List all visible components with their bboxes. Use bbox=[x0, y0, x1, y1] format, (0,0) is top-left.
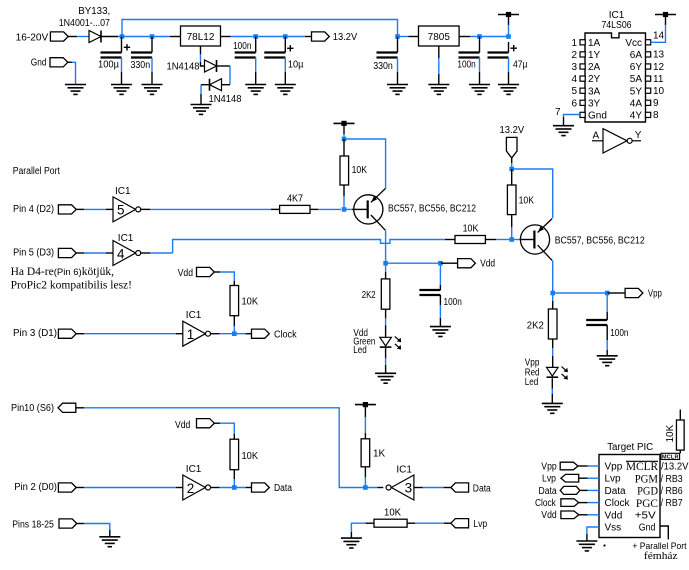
node Q2 base bbox=[509, 237, 514, 242]
svg-text:74LS06: 74LS06 bbox=[601, 20, 631, 31]
output terminal Data bbox=[252, 483, 293, 494]
inverter U1d gate4 bbox=[113, 233, 141, 265]
label parallel port case bbox=[632, 541, 686, 562]
resistor R4 10K pullup-Q2 bbox=[507, 169, 534, 238]
svg-text:BY133,: BY133, bbox=[78, 6, 110, 17]
svg-text:Parallel Port: Parallel Port bbox=[13, 166, 60, 177]
svg-text:7: 7 bbox=[555, 107, 561, 118]
label / RB6 bbox=[661, 486, 683, 497]
IC pins squares bbox=[580, 40, 651, 118]
node 100n-b bbox=[477, 34, 482, 39]
svg-text:4Y: 4Y bbox=[630, 111, 643, 122]
svg-text:Pin10 (S6): Pin10 (S6) bbox=[11, 403, 54, 414]
wire Q1 emitter bbox=[344, 139, 386, 189]
wire gate5 out bbox=[141, 208, 280, 210]
label Parallel Port bbox=[13, 166, 60, 177]
node Q2 rail bbox=[509, 167, 514, 172]
input terminal Data-pic bbox=[451, 483, 491, 494]
wire Q2 collector down bbox=[552, 260, 554, 293]
node gate3 in bbox=[363, 485, 368, 490]
svg-text:ProPic2 kompatibilis lesz!: ProPic2 kompatibilis lesz! bbox=[11, 280, 132, 292]
node Vpp rail-a bbox=[550, 291, 555, 296]
PIC pin Gnd bbox=[639, 523, 656, 534]
node 100n-a bbox=[253, 34, 258, 39]
ground C9 bbox=[430, 327, 451, 337]
terminal Lvp-t bbox=[542, 474, 599, 485]
power tap bar Vcc bbox=[655, 12, 676, 17]
terminal Vdd-t bbox=[541, 510, 599, 521]
svg-text:Data: Data bbox=[539, 486, 558, 497]
node 330n bbox=[150, 34, 155, 39]
label Q2 type bbox=[555, 236, 645, 247]
svg-text:10K: 10K bbox=[519, 196, 535, 207]
svg-text:Vdd: Vdd bbox=[480, 259, 495, 270]
resistor R7 10K bbox=[230, 286, 258, 333]
svg-text:330n: 330n bbox=[373, 61, 393, 72]
wire base Q1 bbox=[344, 208, 368, 210]
capacitor C7 47u bbox=[488, 42, 528, 85]
svg-text:78L12: 78L12 bbox=[187, 32, 215, 43]
svg-text:10: 10 bbox=[653, 86, 665, 97]
wire gate4 out bbox=[141, 252, 173, 254]
resistor R1 4K7 bbox=[280, 194, 310, 214]
ground pin7 bbox=[553, 126, 574, 136]
transistor Q1 BC557 bbox=[354, 189, 386, 231]
svg-text:Gnd: Gnd bbox=[31, 58, 47, 69]
note line1 bbox=[11, 266, 114, 278]
diode D3 1N4148 bbox=[201, 79, 242, 105]
ground Vss bbox=[576, 541, 597, 551]
svg-text:10K: 10K bbox=[384, 508, 401, 519]
svg-text:Vpp: Vpp bbox=[541, 461, 557, 472]
svg-text:fémház: fémház bbox=[644, 550, 678, 562]
PIC pin PGM bbox=[635, 471, 659, 485]
wire pin5 to gate4 bbox=[84, 252, 113, 254]
transistor Q2 BC557 bbox=[520, 219, 552, 261]
IC pin numbers left 1-7 bbox=[555, 38, 578, 118]
svg-text:6Y: 6Y bbox=[630, 62, 643, 73]
capacitor C3 100n bbox=[233, 37, 256, 85]
svg-text:Gnd: Gnd bbox=[588, 111, 607, 122]
svg-text:14: 14 bbox=[653, 30, 665, 41]
svg-text:Pin 4 (D2): Pin 4 (D2) bbox=[13, 204, 54, 215]
svg-text:2K2: 2K2 bbox=[362, 290, 376, 301]
wire 7805 out bbox=[459, 36, 508, 38]
ground green led bbox=[375, 373, 396, 383]
IC U4 Target PIC body bbox=[599, 455, 660, 538]
input terminal Pin 2 (D0) bbox=[14, 482, 84, 493]
wire led4 to gnd bbox=[385, 348, 387, 373]
legend inverter A-Y bbox=[592, 129, 642, 153]
svg-text:IC1: IC1 bbox=[396, 465, 412, 476]
wire diode loop bbox=[229, 66, 231, 85]
ground C1 bbox=[111, 85, 132, 95]
svg-text:4A: 4A bbox=[630, 98, 643, 109]
diode D2 1N4148 bbox=[167, 60, 231, 73]
node 47u bbox=[506, 34, 511, 39]
svg-text:100n: 100n bbox=[457, 60, 475, 71]
svg-text:Clock: Clock bbox=[605, 498, 631, 509]
ground C5 bbox=[387, 85, 408, 95]
svg-text:9: 9 bbox=[653, 98, 659, 109]
wire input rail bbox=[118, 36, 170, 38]
svg-text:Pins 18-25: Pins 18-25 bbox=[12, 519, 54, 530]
resistor R2 10K pullup-Q1 bbox=[340, 139, 367, 207]
svg-text:Lvp: Lvp bbox=[473, 519, 487, 530]
IC pin labels bbox=[588, 38, 642, 122]
power tap bar 5V bbox=[498, 12, 519, 17]
wire gate4 to R3 with jog bbox=[173, 240, 445, 254]
svg-text:8: 8 bbox=[653, 110, 659, 121]
wire 78L12 gnd bbox=[201, 46, 205, 66]
wire 78L12 out bbox=[221, 36, 312, 38]
regulator U2 78L12 bbox=[170, 26, 221, 46]
wire Vss gnd bbox=[587, 527, 599, 541]
ground 7805 bbox=[428, 85, 449, 95]
svg-text:Vcc: Vcc bbox=[625, 38, 642, 49]
wire pin3 to gate1 bbox=[84, 333, 183, 335]
terminal Vpp-t bbox=[541, 461, 599, 472]
node 330n-b bbox=[395, 34, 400, 39]
wire 5V tap bbox=[508, 15, 510, 37]
svg-text:Ha D4-re(Pin 6)kötjük,: Ha D4-re(Pin 6)kötjük, bbox=[11, 266, 114, 278]
svg-text:Vdd: Vdd bbox=[541, 510, 556, 521]
dot mark bbox=[603, 544, 605, 546]
wire Vdd rail bbox=[386, 262, 441, 264]
label / RB3 bbox=[661, 474, 683, 485]
ground 1N4148 bbox=[191, 105, 212, 115]
svg-text:7805: 7805 bbox=[428, 32, 451, 43]
diode D1 BY133/1N4001 bbox=[59, 6, 118, 43]
svg-text:10µ: 10µ bbox=[288, 60, 304, 71]
wire vdd to R9 bbox=[220, 423, 234, 439]
svg-text:IC1: IC1 bbox=[118, 233, 134, 244]
input terminal 16-20V bbox=[16, 32, 77, 43]
wire lvp gnd bbox=[351, 523, 365, 538]
ground Gnd-tag bbox=[65, 85, 86, 95]
IC U1 74LS06 body bbox=[585, 33, 646, 122]
svg-text:IC1: IC1 bbox=[186, 464, 202, 475]
svg-text:10K: 10K bbox=[463, 224, 479, 235]
resistor R5 2K2 bbox=[527, 293, 557, 367]
svg-text:Clock: Clock bbox=[274, 329, 297, 340]
label / RB7 bbox=[661, 498, 683, 509]
output terminal Clock bbox=[252, 329, 298, 340]
svg-text:6A: 6A bbox=[630, 50, 643, 61]
svg-text:330n: 330n bbox=[131, 60, 151, 71]
input terminal Pins 18-25 bbox=[12, 519, 84, 531]
svg-text:100µ: 100µ bbox=[98, 60, 119, 71]
svg-text:Pin 2 (D0): Pin 2 (D0) bbox=[14, 482, 57, 493]
svg-text:5Y: 5Y bbox=[630, 86, 643, 97]
PIC pin PGC bbox=[636, 496, 658, 510]
input terminal Lvp-pic bbox=[451, 519, 488, 530]
wire Q2 emitter bbox=[512, 169, 553, 218]
svg-text:13.2V: 13.2V bbox=[333, 32, 358, 43]
svg-text:5: 5 bbox=[117, 203, 125, 218]
supply terminal 13.2V-Q2 bbox=[500, 125, 525, 169]
svg-text:PGC: PGC bbox=[636, 496, 658, 510]
IC pin numbers right 14-8 bbox=[653, 30, 665, 121]
svg-text:+5V: +5V bbox=[635, 510, 656, 521]
node clock bbox=[232, 331, 237, 336]
svg-text:Led: Led bbox=[353, 345, 367, 356]
supply terminal Vdd-data bbox=[175, 419, 220, 431]
wire to 7805 bbox=[398, 36, 419, 38]
node Vpp rail-b bbox=[605, 291, 610, 296]
svg-text:3: 3 bbox=[571, 62, 577, 73]
svg-text:4: 4 bbox=[571, 74, 577, 85]
led D4 green Vdd bbox=[353, 328, 401, 356]
svg-text:100n: 100n bbox=[233, 41, 251, 52]
resistor R9 10K bbox=[230, 439, 258, 486]
svg-text:Vdd: Vdd bbox=[178, 268, 193, 279]
svg-text:Lvp: Lvp bbox=[542, 474, 556, 485]
ground C7 bbox=[498, 85, 519, 95]
ground C3 bbox=[245, 85, 266, 95]
svg-text:100n: 100n bbox=[610, 328, 628, 339]
power tap bar 1K bbox=[355, 402, 376, 407]
svg-text:47µ: 47µ bbox=[513, 60, 528, 71]
svg-text:Led: Led bbox=[525, 377, 539, 388]
wire pins1825 gnd bbox=[84, 524, 110, 537]
PIC pin +5V bbox=[635, 510, 656, 521]
power tap bar 13.2V-Q1 bbox=[334, 121, 355, 126]
resistor R11 10K mclr bbox=[665, 410, 684, 454]
label Q1 type bbox=[388, 204, 476, 215]
svg-text:IC1: IC1 bbox=[609, 10, 625, 21]
svg-text:IC1: IC1 bbox=[186, 310, 202, 321]
resistor R10 10K lvp bbox=[366, 508, 451, 528]
net label MCLR box bbox=[661, 453, 680, 460]
svg-text:5: 5 bbox=[571, 86, 577, 97]
inverter U1b gate2 bbox=[183, 464, 211, 500]
terminal Clock-t bbox=[535, 498, 599, 509]
capacitor C6 100n bbox=[457, 37, 479, 85]
ground red led bbox=[542, 403, 563, 413]
svg-text:12: 12 bbox=[653, 62, 665, 73]
svg-text:BC557, BC556, BC212: BC557, BC556, BC212 bbox=[555, 236, 645, 247]
capacitor C1 100u bbox=[98, 37, 130, 85]
svg-text:1N4148: 1N4148 bbox=[167, 62, 200, 73]
ground lvp bbox=[341, 538, 362, 548]
svg-text:2K2: 2K2 bbox=[527, 321, 544, 332]
svg-text:11: 11 bbox=[653, 74, 664, 85]
node A rail-in bbox=[120, 34, 125, 39]
svg-text:16-20V: 16-20V bbox=[16, 32, 49, 43]
node Q1 base bbox=[342, 207, 347, 212]
wire top 13.2V rail bbox=[122, 20, 398, 37]
svg-text:Vpp: Vpp bbox=[605, 462, 623, 473]
wire pin14 Vcc bbox=[651, 17, 666, 43]
svg-text:1K: 1K bbox=[373, 448, 386, 459]
wire Q1 collector down bbox=[385, 230, 387, 261]
svg-text:Data: Data bbox=[605, 486, 627, 497]
wire vdd to R7 bbox=[220, 272, 234, 286]
svg-text:Data: Data bbox=[473, 483, 491, 494]
PIC pin names left bbox=[605, 462, 631, 534]
svg-text:/ RB7: / RB7 bbox=[661, 498, 683, 509]
input terminal Pin 5 (D3) bbox=[13, 247, 84, 258]
wire led to gnd bbox=[551, 378, 553, 403]
wire pin7 Gnd bbox=[564, 115, 581, 126]
note line2 bbox=[11, 280, 132, 292]
wire 7805 gnd bbox=[438, 46, 440, 85]
regulator U3 7805 bbox=[419, 26, 460, 46]
output terminal Vpp bbox=[607, 288, 662, 299]
input terminal Pin10 (S6) bbox=[11, 403, 84, 414]
inverter U1c gate3 bbox=[386, 465, 414, 500]
svg-text:1A: 1A bbox=[588, 38, 601, 49]
svg-text:1: 1 bbox=[571, 38, 577, 49]
output terminal Vdd bbox=[440, 259, 495, 270]
svg-text:IC1: IC1 bbox=[115, 186, 131, 197]
wire pic gnd case bbox=[660, 526, 668, 539]
svg-text:1N4148: 1N4148 bbox=[209, 94, 242, 105]
svg-text:3A: 3A bbox=[588, 86, 601, 97]
IC1 74LS06 title bbox=[601, 10, 631, 31]
wire to gnd D3 bbox=[200, 85, 202, 105]
resistor R8 1K bbox=[361, 439, 385, 488]
svg-text:Gnd: Gnd bbox=[639, 523, 656, 534]
svg-text:Vpp: Vpp bbox=[648, 289, 662, 300]
wire base Q2 bbox=[512, 239, 535, 241]
inverter U1e gate5 bbox=[113, 186, 141, 222]
ground C4 bbox=[275, 85, 296, 95]
svg-text:Lvp: Lvp bbox=[605, 474, 622, 485]
svg-text:Y: Y bbox=[635, 130, 642, 141]
input terminal Pin 4 (D2) bbox=[13, 204, 84, 215]
svg-text:1Y: 1Y bbox=[588, 50, 601, 61]
svg-text:A: A bbox=[593, 131, 600, 142]
ground C8 bbox=[597, 356, 618, 366]
output terminal 13.2V bbox=[312, 32, 358, 43]
svg-text:1N4001-...07: 1N4001-...07 bbox=[59, 18, 111, 29]
capacitor C2 330n bbox=[131, 37, 153, 85]
input terminal Pin 3 (D1) bbox=[13, 328, 84, 339]
node Q1 collector bbox=[383, 261, 388, 266]
svg-text:2: 2 bbox=[571, 50, 577, 61]
resistor R3 10K bbox=[445, 224, 510, 244]
capacitor C9 100n Vdd bbox=[419, 263, 461, 326]
terminal Data-t bbox=[539, 486, 600, 497]
svg-text:/ RB3: / RB3 bbox=[661, 474, 683, 485]
wire gate2 out bbox=[211, 487, 252, 489]
PIC pin MCLR bbox=[626, 459, 658, 473]
svg-text:2: 2 bbox=[187, 481, 195, 496]
ground pins1825 bbox=[99, 537, 120, 547]
wire gate1 out bbox=[211, 333, 252, 335]
wire 4K7 to base bbox=[310, 208, 341, 210]
svg-text:Vss: Vss bbox=[605, 523, 622, 534]
ground terminal Gnd bbox=[31, 58, 76, 85]
node 10u bbox=[283, 34, 288, 39]
svg-text:6: 6 bbox=[571, 98, 577, 109]
wire pin10 long bbox=[84, 408, 383, 488]
svg-text:4K7: 4K7 bbox=[287, 194, 303, 205]
svg-text:10K: 10K bbox=[665, 424, 676, 442]
svg-text:BC557, BC556, BC212: BC557, BC556, BC212 bbox=[388, 204, 476, 215]
svg-text:10K: 10K bbox=[242, 297, 259, 308]
svg-text:5A: 5A bbox=[630, 74, 643, 85]
svg-text:Target PIC: Target PIC bbox=[607, 442, 653, 453]
node Vdd rail-b bbox=[438, 261, 443, 266]
svg-text:Vdd: Vdd bbox=[175, 420, 190, 431]
supply terminal Vdd-clk bbox=[178, 267, 220, 278]
svg-text:Data: Data bbox=[274, 483, 292, 494]
wire tap to R8 bbox=[364, 405, 366, 439]
capacitor C8 100n Vpp bbox=[586, 293, 628, 356]
svg-text:MCLR: MCLR bbox=[662, 455, 679, 461]
resistor R6 2K2 bbox=[362, 263, 390, 337]
PIC pin PGD bbox=[637, 484, 658, 498]
svg-text:/13.2V: /13.2V bbox=[661, 462, 689, 473]
svg-text:Vdd: Vdd bbox=[605, 510, 623, 521]
svg-text:Pin 3 (D1): Pin 3 (D1) bbox=[13, 328, 57, 339]
svg-text:1: 1 bbox=[187, 327, 195, 342]
svg-text:13: 13 bbox=[653, 50, 665, 61]
svg-text:13.2V: 13.2V bbox=[500, 125, 525, 136]
svg-text:Pin 5 (D3): Pin 5 (D3) bbox=[13, 247, 54, 258]
node Q1 emitter rail bbox=[342, 137, 347, 142]
svg-text:3: 3 bbox=[405, 481, 413, 496]
ground C6 bbox=[469, 85, 490, 95]
wire pin4 to gate5 bbox=[84, 208, 113, 210]
svg-text:4: 4 bbox=[117, 246, 125, 261]
svg-text:3Y: 3Y bbox=[588, 98, 601, 109]
wire gate3 input bbox=[414, 487, 451, 489]
svg-text:100n: 100n bbox=[444, 297, 462, 308]
label Target PIC bbox=[607, 442, 653, 453]
svg-text:/ RB6: / RB6 bbox=[661, 486, 683, 497]
svg-text:Clock: Clock bbox=[535, 498, 557, 509]
capacitor C4 10u bbox=[264, 37, 303, 85]
svg-text:2A: 2A bbox=[588, 62, 601, 73]
wire tap to node bbox=[343, 123, 345, 139]
inverter U1a gate1 bbox=[183, 310, 211, 346]
label /13.2V bbox=[661, 462, 689, 473]
node data bbox=[232, 485, 237, 490]
svg-text:10K: 10K bbox=[352, 165, 368, 176]
ground C2 bbox=[142, 85, 163, 95]
led D5 red Vpp bbox=[525, 357, 568, 388]
svg-text:2Y: 2Y bbox=[588, 74, 601, 85]
wire pin2 to gate2 bbox=[84, 487, 183, 489]
svg-text:10K: 10K bbox=[242, 451, 259, 462]
wire Vpp rail bbox=[553, 292, 608, 294]
capacitor C5 330n bbox=[373, 37, 397, 85]
